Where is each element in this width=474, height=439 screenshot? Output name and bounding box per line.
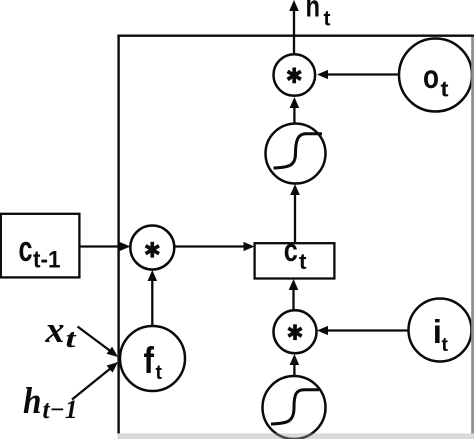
svg-text:c: c (19, 228, 33, 269)
svg-text:t-1: t-1 (33, 247, 61, 274)
svg-text:h: h (23, 381, 42, 422)
svg-text:t: t (299, 249, 307, 274)
svg-text:t: t (66, 324, 77, 353)
svg-text:x: x (44, 310, 64, 351)
svg-text:h: h (306, 0, 321, 24)
svg-text:f: f (144, 340, 155, 381)
svg-text:o: o (423, 58, 439, 95)
svg-text:t−1: t−1 (43, 395, 78, 424)
svg-text:t: t (324, 8, 331, 31)
svg-text:t: t (442, 335, 449, 356)
svg-text:t: t (156, 362, 163, 384)
svg-text:t: t (441, 77, 450, 102)
svg-text:c: c (284, 232, 298, 268)
